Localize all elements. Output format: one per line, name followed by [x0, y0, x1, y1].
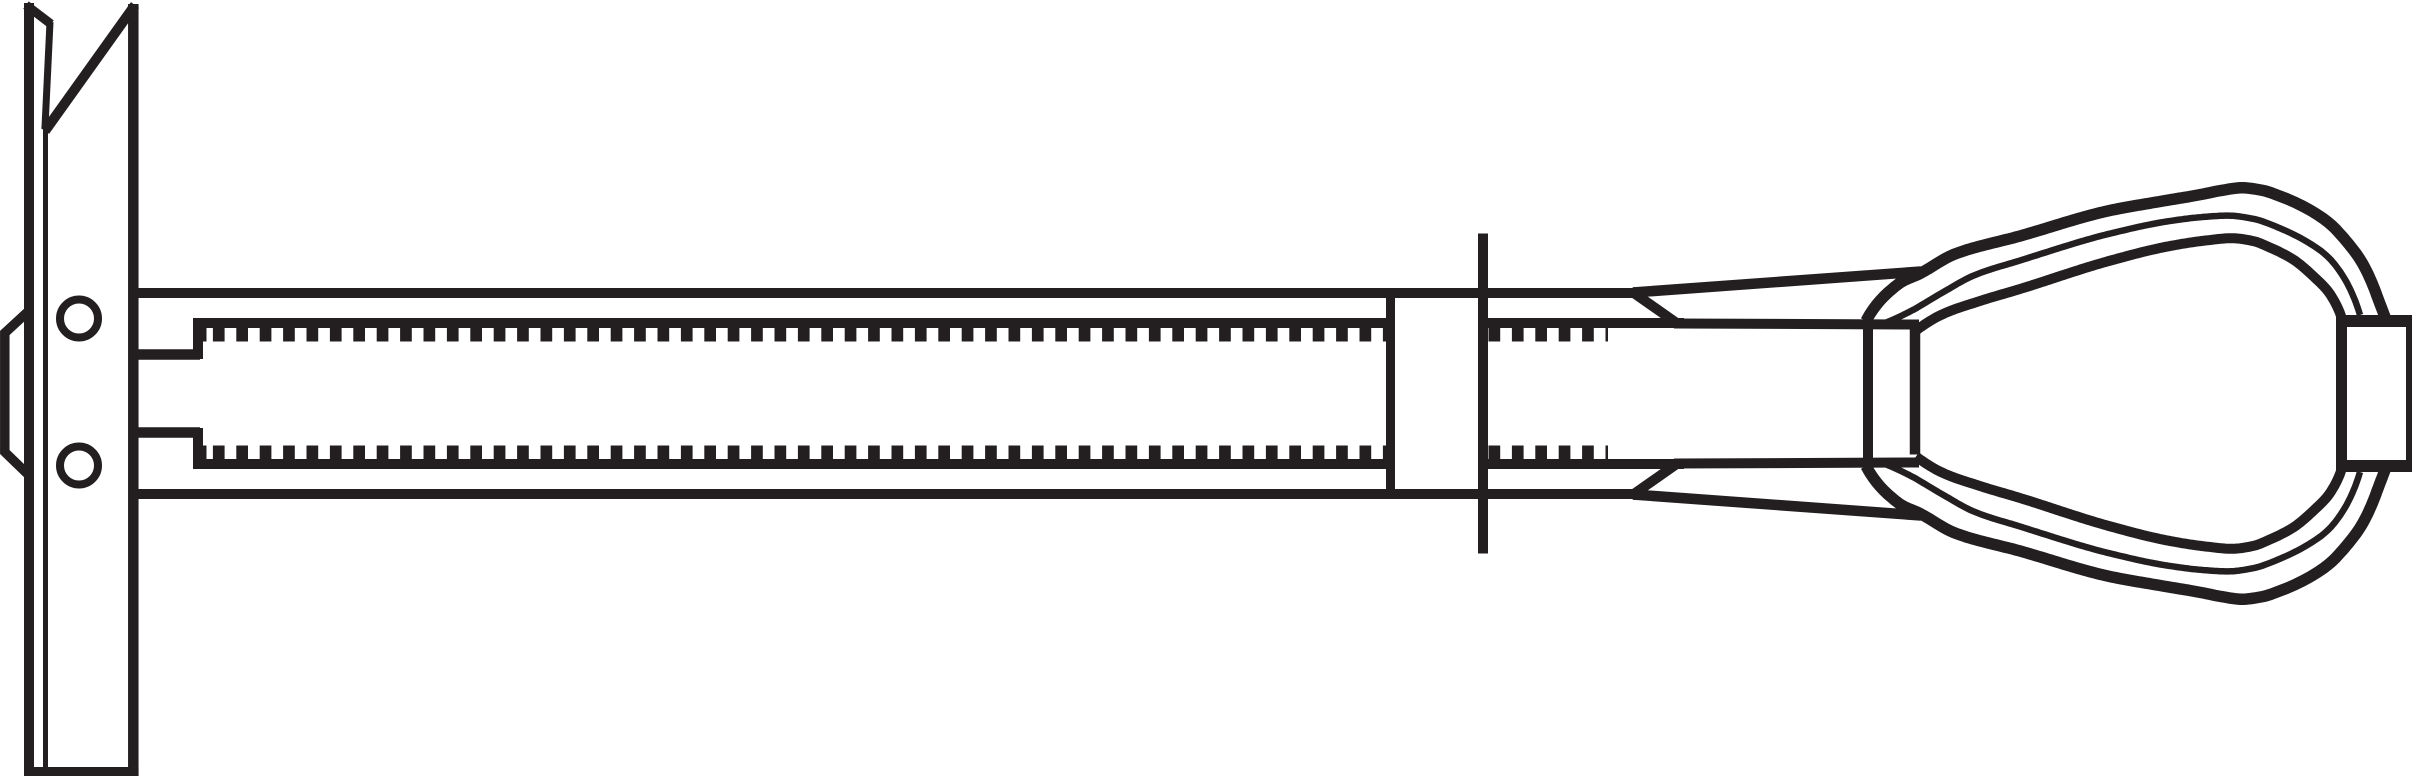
sleeve outer line top — [138, 288, 1634, 298]
rack bar right of pin — [1486, 318, 1684, 328]
strap blade top edge — [1633, 272, 1921, 293]
rack bar left of slider — [198, 318, 1388, 328]
rack first tooth stub — [203, 328, 207, 342]
plate inner thin line — [43, 122, 48, 767]
inner line to loop collar — [1674, 324, 1919, 325]
plate break short vertical — [45, 22, 50, 127]
screw hole top — [60, 300, 98, 338]
slider block left edge — [1386, 298, 1395, 489]
rack step vertical — [193, 318, 203, 359]
mirrored bottom half — [138, 428, 2385, 599]
plate break diagonal top — [26, 5, 51, 24]
loop right end block — [2336, 315, 2412, 472]
loop inner edge — [1916, 238, 2342, 330]
plate bottom bar — [24, 767, 139, 776]
rack teeth left of slider (dashes) — [213, 328, 1386, 342]
rack teeth right of pin (dashes) — [1489, 328, 1609, 342]
loop middle thin line — [1884, 216, 2360, 324]
screw hole bottom — [60, 447, 98, 485]
loop collar right vertical — [1910, 329, 1921, 455]
loop outer band edge — [1866, 188, 2385, 321]
upper arm line — [138, 349, 200, 360]
cross pin — [1478, 234, 1488, 554]
left clip trapezoid — [5, 313, 27, 474]
loop collar left vertical — [1863, 319, 1873, 466]
plate left edge — [24, 3, 34, 776]
plate big diagonal — [45, 5, 135, 131]
plate right edge — [128, 4, 139, 767]
sleeve end diagonal — [1631, 291, 1678, 324]
